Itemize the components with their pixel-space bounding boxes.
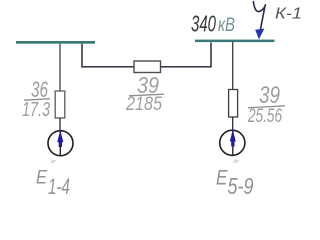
tick mark (left) — [51, 160, 56, 163]
svg-text:25.56: 25.56 — [247, 106, 282, 127]
svg-text:кВ: кВ — [218, 15, 235, 36]
svg-text:1-4: 1-4 — [48, 174, 70, 199]
svg-text:5-9: 5-9 — [228, 173, 254, 199]
wire: right bus drop to reactance X2 — [232, 42, 234, 90]
value label 36/17.3 — [22, 77, 50, 121]
wire: X2 to generator E5-9 — [232, 117, 234, 130]
fault marker K-1 (hook, arrow shaft, arrowhead) — [253, 1, 265, 39]
svg-text:К-1: К-1 — [275, 6, 302, 23]
svg-text:17.3: 17.3 — [22, 99, 50, 121]
label К-1 — [275, 6, 302, 23]
generator E5-9 (circle with EMF arrow) — [220, 130, 245, 156]
resistor X3 (tie reactance) — [134, 61, 161, 73]
label E5-9 — [216, 167, 254, 200]
busbar B2 (right 340 kV bus) — [195, 40, 275, 43]
label 340 кВ — [191, 11, 235, 37]
reactance X2 — [229, 90, 238, 118]
busbar B1 (left bus) — [16, 41, 95, 44]
generator E1-4 (circle with EMF arrow) — [48, 130, 73, 156]
wire: X1 to generator E1-4 — [59, 118, 61, 130]
wire: left bus to tie resistor (L-shape) — [82, 44, 134, 67]
svg-text:E: E — [36, 168, 47, 189]
tick mark (right) — [234, 160, 239, 163]
label E1-4 — [36, 168, 70, 200]
wire: left bus drop to reactance X1 — [59, 44, 61, 92]
value label 39/2185 — [125, 72, 164, 115]
svg-text:340: 340 — [191, 11, 216, 37]
reactance X1 — [55, 91, 65, 118]
svg-text:E: E — [216, 167, 228, 190]
svg-text:2185: 2185 — [125, 94, 162, 115]
value label 39/25.56 — [247, 82, 285, 127]
wire: tie resistor to right bus (L-shape) — [161, 43, 212, 67]
svg-text:39: 39 — [259, 82, 280, 109]
